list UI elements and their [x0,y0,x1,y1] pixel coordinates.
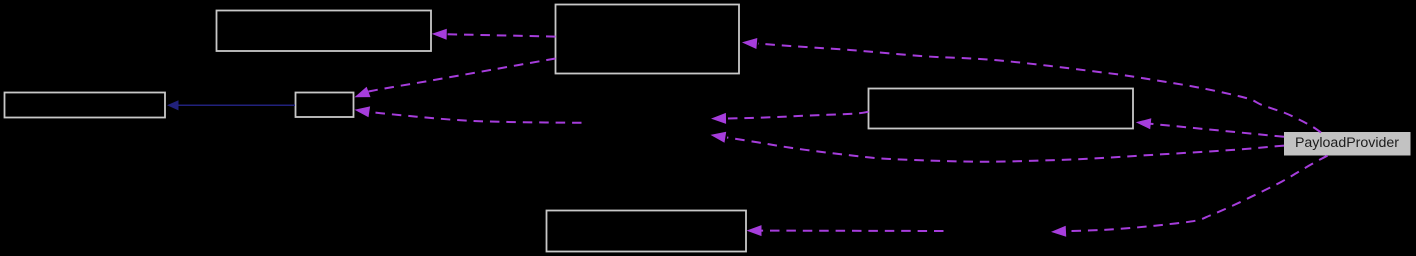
edge center->Small [364,111,582,123]
edge TM->TL [446,34,556,36]
node MidRight [869,89,1134,129]
node Small [296,93,354,118]
edge PP->bottom [1071,156,1328,231]
node Bottom [547,211,747,252]
edge PP->MR [1150,124,1284,137]
edge bottom->Bottom [761,230,944,232]
node PayloadProvider [1284,132,1411,156]
node Left [5,93,166,118]
edge TM->Small [362,59,556,95]
node TopMiddle [556,5,740,74]
svg-text:PayloadProvider: PayloadProvider [1295,135,1399,151]
edge PP->center [727,138,1284,162]
node TopLeft [217,11,432,52]
edge Small->Left(inherit) [178,104,295,106]
edge PP->TM [758,44,1321,133]
edge MR->center [727,112,869,119]
